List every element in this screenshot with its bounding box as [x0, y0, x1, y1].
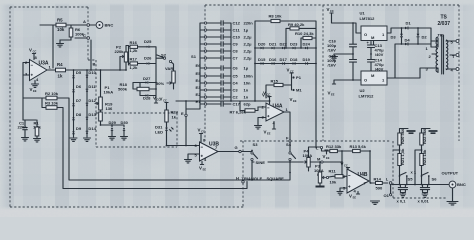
svg-text:LED: LED: [155, 130, 163, 135]
svg-text:CC: CC: [266, 95, 270, 99]
svg-text:S1: S1: [191, 54, 197, 59]
svg-text:CC: CC: [33, 50, 37, 54]
svg-text:D11: D11: [88, 84, 96, 89]
svg-text:220k: 220k: [115, 49, 125, 54]
svg-text:100n: 100n: [244, 74, 254, 79]
svg-text:H: H: [236, 175, 239, 180]
svg-text:E1: E1: [196, 99, 202, 104]
svg-text:50%: 50%: [156, 81, 165, 86]
svg-text:E: E: [181, 111, 184, 116]
svg-text:V: V: [199, 166, 202, 171]
svg-text:10k: 10k: [57, 27, 65, 32]
svg-text:R12 33k: R12 33k: [326, 144, 342, 149]
svg-text:S6: S6: [432, 177, 438, 182]
svg-text:EE: EE: [353, 196, 357, 200]
svg-text:x 0,1: x 0,1: [397, 199, 407, 204]
svg-text:R9 40,2k: R9 40,2k: [288, 22, 305, 27]
svg-text:CC: CC: [330, 9, 334, 13]
svg-text:D30: D30: [121, 120, 129, 125]
svg-text:1: 1: [286, 107, 289, 112]
svg-text:C5: C5: [233, 74, 239, 79]
svg-text:10k: 10k: [330, 180, 338, 185]
svg-text:LM7912: LM7912: [359, 94, 375, 99]
svg-text:x 0,01: x 0,01: [418, 199, 430, 204]
svg-text:D16: D16: [269, 57, 277, 62]
svg-text:E6: E6: [196, 63, 202, 68]
svg-text:SINE: SINE: [256, 160, 266, 165]
svg-text:D6: D6: [76, 84, 82, 89]
svg-text:D24: D24: [303, 41, 311, 46]
svg-text:/16V: /16V: [328, 63, 337, 68]
svg-text:U2: U2: [360, 88, 366, 93]
svg-text:C4: C4: [233, 81, 239, 86]
svg-text:4: 4: [354, 189, 357, 194]
svg-text:R3 10k: R3 10k: [45, 101, 59, 106]
svg-text:2,2µ: 2,2µ: [244, 49, 253, 54]
svg-text:R5: R5: [57, 18, 63, 23]
svg-text:C9: C9: [233, 42, 239, 47]
svg-text:V: V: [198, 128, 201, 133]
svg-text:1k: 1k: [58, 74, 63, 79]
svg-text:D29: D29: [109, 120, 117, 125]
svg-text:S2: S2: [161, 53, 167, 58]
svg-text:R8 10k: R8 10k: [269, 14, 283, 19]
svg-text:VAR: VAR: [165, 66, 173, 71]
svg-text:R15: R15: [271, 79, 279, 84]
svg-text:D7: D7: [76, 98, 82, 103]
svg-text:A: A: [83, 19, 86, 24]
svg-text:2/037: 2/037: [438, 21, 451, 27]
svg-text:TS: TS: [441, 15, 448, 21]
svg-text:1,2k: 1,2k: [130, 65, 139, 70]
svg-text:CC: CC: [201, 130, 205, 134]
svg-text:D13: D13: [88, 112, 96, 117]
svg-text:C: C: [83, 33, 86, 38]
svg-text:U4B: U4B: [358, 172, 368, 178]
svg-text:R10 24,3k: R10 24,3k: [295, 31, 314, 36]
svg-text:/40V: /40V: [375, 52, 384, 57]
svg-text:SQUARE: SQUARE: [267, 176, 285, 181]
svg-text:590: 590: [376, 186, 384, 191]
svg-text:P1: P1: [296, 75, 302, 80]
svg-text:B: B: [93, 62, 96, 67]
svg-text:O: O: [364, 32, 367, 37]
svg-text:LM7812: LM7812: [360, 16, 376, 21]
svg-text:D25: D25: [144, 39, 152, 44]
svg-text:C7: C7: [233, 56, 239, 61]
svg-text:S4: S4: [286, 142, 292, 147]
svg-text:E3: E3: [196, 85, 202, 90]
svg-text:C17: C17: [233, 102, 241, 107]
svg-text:1: 1: [49, 64, 52, 69]
svg-text:C8: C8: [233, 49, 239, 54]
svg-text:EE: EE: [267, 132, 271, 136]
svg-text:D27: D27: [143, 76, 151, 81]
svg-text:D22: D22: [280, 41, 288, 46]
svg-text:R21 1,5k: R21 1,5k: [400, 148, 405, 165]
svg-text:CC: CC: [344, 164, 348, 168]
svg-text:E2: E2: [196, 92, 202, 97]
svg-text:D8: D8: [76, 112, 82, 117]
svg-text:V: V: [153, 96, 156, 101]
svg-text:D23: D23: [290, 41, 298, 46]
svg-text:EE: EE: [331, 93, 335, 97]
svg-text:C12: C12: [233, 21, 241, 26]
svg-text:R7 6,26k: R7 6,26k: [230, 110, 247, 115]
svg-text:1n: 1n: [244, 95, 249, 100]
svg-text:500k: 500k: [118, 87, 128, 92]
svg-text:D26: D26: [144, 56, 152, 61]
svg-text:V: V: [29, 48, 32, 53]
svg-text:D4: D4: [405, 38, 411, 43]
svg-text:220n: 220n: [18, 125, 28, 130]
svg-text:62p: 62p: [244, 102, 252, 107]
svg-text:S5: S5: [408, 177, 414, 182]
svg-text:M: M: [317, 157, 321, 162]
svg-text:4: 4: [273, 121, 276, 126]
svg-text:R11: R11: [329, 169, 337, 174]
svg-text:U4A: U4A: [273, 104, 283, 110]
svg-text:G: G: [235, 145, 238, 150]
svg-text:C6: C6: [233, 66, 239, 71]
svg-text:EE: EE: [33, 89, 37, 93]
svg-text:4: 4: [36, 77, 39, 82]
svg-text:D15: D15: [258, 57, 266, 62]
svg-text:1: 1: [426, 46, 429, 51]
svg-text:220n: 220n: [244, 21, 254, 26]
svg-text:V: V: [160, 97, 163, 102]
svg-text:x 1: x 1: [411, 170, 417, 175]
svg-text:5: 5: [195, 153, 198, 158]
svg-text:C2: C2: [233, 95, 239, 100]
svg-text:R4: R4: [57, 62, 63, 67]
svg-text:/16V: /16V: [328, 48, 337, 53]
svg-text:2,2µ: 2,2µ: [244, 56, 253, 61]
svg-text:D14: D14: [88, 126, 96, 131]
svg-text:E4: E4: [196, 78, 202, 83]
svg-text:R2 10k: R2 10k: [45, 91, 59, 96]
svg-text:TR: TR: [438, 33, 443, 38]
svg-text:O1: O1: [384, 193, 390, 198]
svg-text:R16: R16: [130, 40, 138, 45]
svg-text:1k: 1k: [172, 115, 177, 120]
svg-text:EE: EE: [293, 99, 297, 103]
svg-text:OUTPUT: OUTPUT: [442, 171, 459, 176]
svg-text:M1: M1: [296, 88, 302, 93]
svg-text:O: O: [364, 78, 367, 83]
svg-text:EE: EE: [203, 168, 207, 172]
svg-text:L: L: [386, 177, 389, 182]
svg-text:136: 136: [106, 106, 114, 111]
svg-text:D5: D5: [76, 70, 82, 75]
svg-text:R17: R17: [130, 57, 138, 62]
svg-text:2,2µ: 2,2µ: [244, 35, 253, 40]
svg-text:3: 3: [426, 67, 429, 72]
svg-text:2: 2: [429, 54, 432, 59]
svg-text:R20 560: R20 560: [400, 128, 405, 144]
svg-text:E5: E5: [196, 71, 202, 76]
svg-text:8: 8: [35, 55, 38, 60]
svg-text:TRIANGLE: TRIANGLE: [242, 176, 263, 181]
svg-text:10kA: 10kA: [104, 90, 114, 95]
svg-text:8: 8: [203, 138, 206, 143]
svg-text:F: F: [286, 136, 289, 141]
svg-text:1,2k: 1,2k: [130, 48, 139, 53]
svg-text:BNC: BNC: [105, 23, 114, 28]
svg-text:U1: U1: [360, 11, 366, 16]
svg-text:D18: D18: [290, 57, 298, 62]
svg-text:1µ: 1µ: [244, 66, 249, 71]
svg-text:V: V: [349, 194, 352, 199]
svg-text:4: 4: [451, 68, 454, 73]
svg-text:2,2µ: 2,2µ: [244, 42, 253, 47]
svg-text:1µ: 1µ: [244, 28, 249, 33]
svg-text:R23 18k: R23 18k: [422, 149, 427, 165]
svg-text:R14: R14: [374, 177, 382, 182]
svg-text:L: L: [316, 146, 319, 151]
svg-text:U3A: U3A: [39, 61, 49, 67]
svg-text:D3: D3: [391, 35, 397, 40]
svg-text:D1: D1: [406, 21, 412, 26]
svg-text:5: 5: [451, 40, 454, 45]
svg-text:S3: S3: [253, 142, 259, 147]
svg-text:CC: CC: [163, 99, 167, 103]
svg-text:C11: C11: [233, 28, 241, 33]
svg-text:D9: D9: [76, 126, 82, 131]
svg-text:D12: D12: [88, 98, 96, 103]
svg-text:D20: D20: [258, 41, 266, 46]
svg-text:10n: 10n: [244, 81, 252, 86]
svg-text:C10: C10: [233, 35, 241, 40]
svg-text:R13 5,6k: R13 5,6k: [350, 144, 367, 149]
svg-text:D19: D19: [303, 57, 311, 62]
svg-text:D10: D10: [88, 70, 96, 75]
svg-text:1n: 1n: [244, 88, 249, 93]
svg-text:BNC: BNC: [457, 182, 466, 187]
svg-text:D28: D28: [143, 96, 151, 101]
svg-text:EE: EE: [326, 156, 330, 160]
svg-text:D21: D21: [269, 41, 277, 46]
svg-text:V: V: [262, 93, 265, 98]
svg-text:3: 3: [25, 72, 28, 77]
svg-text:D17: D17: [280, 57, 288, 62]
svg-text:CC: CC: [290, 70, 294, 74]
svg-text:C3: C3: [233, 88, 239, 93]
svg-text:D2: D2: [422, 35, 428, 40]
svg-text:R22 560: R22 560: [422, 128, 427, 144]
